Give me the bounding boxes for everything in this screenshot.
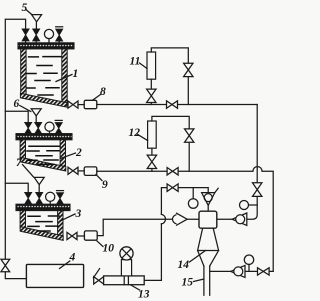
tank 2 lid bbox=[16, 134, 72, 140]
leader line label 4 bbox=[60, 261, 70, 269]
wire: tank 3 line up and right to ejector left port bbox=[97, 219, 199, 235]
fitting 9 bbox=[84, 167, 97, 176]
funnel 5 bbox=[32, 15, 42, 22]
tank 1 liquid dashes bbox=[27, 66, 59, 96]
leader line label 13 bbox=[131, 285, 140, 290]
tank 2 liquid level line bbox=[29, 145, 60, 147]
ball check valve above ejector bbox=[202, 193, 215, 206]
ejector mixing head 14 box bbox=[199, 211, 217, 228]
rotameter 12 bbox=[148, 121, 157, 148]
svg-text:8: 8 bbox=[100, 86, 106, 98]
pump 13 neck bbox=[121, 260, 131, 276]
valve on right vertical line bbox=[253, 183, 262, 197]
svg-text:6: 6 bbox=[14, 98, 20, 110]
tank 2 liquid dashes bbox=[27, 151, 59, 165]
leader line label 15 bbox=[194, 279, 204, 282]
wire: branch to tank 2 top valve bbox=[5, 111, 28, 122]
tank 2 outlet valve bbox=[68, 167, 78, 174]
gauge on pump top line bbox=[192, 188, 194, 199]
ball check valve on bottom line bbox=[231, 265, 245, 277]
tank 3 sloped bottom bbox=[20, 227, 63, 241]
svg-text:10: 10 bbox=[103, 243, 115, 255]
funnel 7 bbox=[34, 177, 44, 184]
valve on rotameter 12 bypass bbox=[185, 129, 194, 142]
funnel 6 bbox=[31, 109, 41, 116]
hop of main line 2 over right vertical line bbox=[253, 167, 262, 172]
ball check valve on ejector right bbox=[232, 213, 247, 225]
tank 1 lid bbox=[18, 43, 74, 49]
svg-text:11: 11 bbox=[130, 56, 141, 68]
svg-text:4: 4 bbox=[69, 252, 76, 264]
tank 1 right wall bbox=[62, 49, 67, 105]
tank 3 liquid level line bbox=[28, 215, 59, 217]
leader line label 5 bbox=[27, 10, 33, 15]
leader line label 11 bbox=[140, 63, 148, 69]
valve under funnel 7 bbox=[36, 193, 43, 205]
wire: rotameter 11 top bypass bbox=[151, 48, 188, 105]
valve on tank 2 lid right bbox=[55, 119, 62, 121]
leader line label 10 bbox=[97, 241, 103, 247]
valve under rotameter 11 bbox=[147, 89, 156, 102]
ejector diffuser cone 14 bbox=[198, 228, 219, 266]
valve between bath and pump bbox=[94, 277, 104, 284]
sampling port circle on tank 1 lid bbox=[44, 29, 53, 38]
tank 3 left wall bbox=[20, 211, 25, 228]
valve on tank 3 lid (gas inlet) bbox=[25, 193, 32, 205]
svg-text:13: 13 bbox=[138, 289, 150, 301]
wire: pump discharge line up bbox=[144, 224, 161, 281]
svg-text:2: 2 bbox=[75, 147, 82, 159]
leader line label 6 bbox=[20, 106, 31, 112]
fitting 10 bbox=[84, 231, 97, 240]
leader line label 8 bbox=[93, 95, 101, 101]
tank 2 left wall bbox=[20, 140, 25, 158]
tank 1 liquid level line bbox=[29, 56, 61, 58]
svg-text:14: 14 bbox=[178, 259, 190, 271]
tail pipe 15 bbox=[204, 266, 210, 295]
valve on rotameter 11 bypass bbox=[184, 63, 193, 76]
wire: rotameter 12 bottom bbox=[151, 148, 153, 171]
leader line label 1 bbox=[56, 75, 72, 82]
valve under funnel 5 bbox=[33, 29, 40, 41]
wire: branch to tank 3 top valve bbox=[5, 183, 28, 192]
leader line label 7 bbox=[23, 165, 34, 178]
rotameter 11 bbox=[147, 52, 156, 79]
svg-text:9: 9 bbox=[102, 179, 108, 191]
collecting bath 4 bbox=[26, 264, 83, 287]
svg-text:3: 3 bbox=[75, 208, 82, 220]
wire: bottom recirculation line from tail pipe to right bbox=[210, 270, 274, 272]
leader line label 12 bbox=[137, 134, 148, 141]
valve on tank 1 lid (gas inlet) bbox=[22, 29, 29, 41]
tank 1 sloped bottom bbox=[20, 93, 67, 107]
svg-text:12: 12 bbox=[129, 127, 141, 139]
valve on main line 2 bbox=[167, 168, 178, 176]
wire: main line 1 from fitting 8 to right bbox=[97, 104, 257, 106]
tank 2 sloped bottom bbox=[20, 157, 66, 171]
wire: main line 2 to far right and down bbox=[262, 171, 273, 271]
tank 1 outlet valve bbox=[68, 101, 78, 108]
wire: pump line to top and right bbox=[161, 188, 208, 215]
wire: left gas supply line vertical bbox=[5, 19, 26, 278]
tank 3 lid bbox=[16, 204, 70, 210]
pump 13 motor circle with cross bbox=[120, 247, 133, 260]
valve on bottom line bbox=[258, 268, 270, 275]
wire: right vertical line from main line 1 down to ejector right port bbox=[217, 105, 257, 220]
valve on pump top line bbox=[167, 184, 178, 192]
hop of pump line over tank 3 line bbox=[161, 214, 165, 224]
valve on tank 3 lid right bbox=[57, 190, 64, 192]
valve on tank 1 lid right bbox=[56, 26, 63, 28]
tank 3 liquid dashes bbox=[28, 222, 58, 231]
valve on left line bottom bbox=[1, 259, 10, 272]
leader line label 9 bbox=[96, 175, 102, 181]
tank 1 left wall bbox=[21, 49, 26, 95]
leader line label 14 bbox=[190, 251, 206, 263]
valve on main line 1 bbox=[167, 101, 178, 109]
sampling port circle on tank 2 lid bbox=[45, 122, 54, 131]
valve on tank 2 lid (gas inlet) bbox=[25, 122, 32, 133]
wire: rotameter 11 bottom bbox=[150, 79, 152, 104]
wire: main line 2 from fitting 9 to hop bbox=[97, 170, 253, 172]
fitting 8 bbox=[84, 100, 97, 108]
valve under rotameter 12 bbox=[147, 155, 156, 168]
svg-text:15: 15 bbox=[182, 277, 194, 289]
gauge on bottom line bbox=[248, 264, 250, 271]
stray handle mark on pump valve bbox=[93, 269, 99, 278]
sampling port circle on tank 3 lid bbox=[46, 192, 55, 201]
svg-text:5: 5 bbox=[22, 2, 28, 14]
ball check valve into ejector left bbox=[173, 215, 182, 224]
tank 3 right wall bbox=[58, 211, 63, 237]
svg-text:1: 1 bbox=[73, 68, 79, 80]
pump 13 body bbox=[104, 276, 145, 285]
leader line label 3 bbox=[59, 214, 75, 222]
wire: rotameter 12 top bypass bbox=[152, 116, 189, 171]
tank 3 outlet valve bbox=[67, 232, 77, 239]
gauge on right vertical line bbox=[249, 204, 258, 206]
leader line label 2 bbox=[61, 153, 76, 159]
tank 2 right wall bbox=[60, 140, 65, 167]
valve under funnel 6 bbox=[35, 122, 42, 133]
